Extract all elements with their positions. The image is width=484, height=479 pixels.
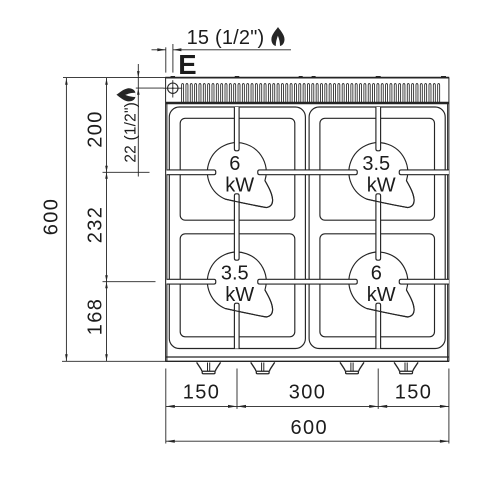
left chain extension at 432 xyxy=(103,281,156,283)
svg-text:kW: kW xyxy=(225,284,254,306)
cooktop body left edge (double line) xyxy=(166,78,167,362)
dim 22 line xyxy=(137,64,140,177)
adjustable foot 3 xyxy=(340,362,364,373)
svg-text:6: 6 xyxy=(371,263,382,285)
burner 1 body (top-left, 6 kW) xyxy=(207,143,272,208)
dim 600 left line xyxy=(65,78,68,362)
dim line 15 xyxy=(152,48,292,51)
splash-rail comb ribs xyxy=(182,84,440,103)
right module upper pan-support frame xyxy=(320,118,435,220)
adjustable foot 1 xyxy=(197,362,221,373)
pan support right finger row 2 xyxy=(399,279,449,284)
right module lower pan-support frame xyxy=(320,234,435,337)
pan support middle finger row 1 xyxy=(258,170,358,175)
pan support top finger column 1 xyxy=(234,107,239,151)
gas connection crosshair xyxy=(163,80,182,97)
svg-text:232: 232 xyxy=(84,206,106,244)
burner 2 teardrop outline restroke xyxy=(367,181,414,208)
svg-text:6: 6 xyxy=(229,153,240,175)
pan support left finger row 1 xyxy=(167,170,216,175)
extension line top left xyxy=(63,77,166,79)
svg-text:22 (1/2"): 22 (1/2") xyxy=(122,102,139,163)
adjustable foot 4 xyxy=(394,362,418,373)
svg-text:300: 300 xyxy=(289,382,327,404)
svg-text:3.5: 3.5 xyxy=(221,263,249,285)
burner 3 body (bottom-left, 3.5 kW) xyxy=(207,252,272,317)
svg-text:150: 150 xyxy=(395,382,433,404)
pan support top finger column 2 xyxy=(376,107,381,151)
pan support bottom finger column 2 xyxy=(376,303,381,348)
svg-text:kW: kW xyxy=(367,284,396,306)
svg-text:600: 600 xyxy=(291,417,329,439)
burner 4 teardrop outline restroke xyxy=(367,290,414,317)
pan support middle finger column 2 xyxy=(376,194,381,260)
cooktop body right edge (double line) xyxy=(448,78,449,362)
svg-text:15 (1/2"): 15 (1/2") xyxy=(187,27,265,49)
mounting tabs on top edge xyxy=(171,76,446,78)
svg-text:kW: kW xyxy=(225,175,254,197)
cooktop body top edge xyxy=(165,77,449,79)
svg-text:3.5: 3.5 xyxy=(362,153,390,175)
svg-text:kW: kW xyxy=(367,175,396,197)
svg-text:168: 168 xyxy=(84,298,106,336)
pan support middle finger row 2 xyxy=(258,279,358,284)
burner 1 teardrop outline restroke xyxy=(225,181,272,208)
left module outer frame xyxy=(169,107,305,349)
svg-text:600: 600 xyxy=(41,198,63,236)
burner power label 3.5 kW xyxy=(362,153,395,196)
adjustable foot 2 xyxy=(251,362,275,373)
dim row 150/300/150 line xyxy=(166,405,449,408)
burner power label 6 kW xyxy=(367,263,396,306)
gas connection marker E circle xyxy=(168,83,178,93)
flame icon left (rotated) xyxy=(116,88,135,101)
burner 3 teardrop outline restroke xyxy=(225,290,272,317)
pan support right finger row 1 xyxy=(399,170,449,175)
right module outer frame xyxy=(309,107,445,349)
cooktop body bottom edge (double line) xyxy=(165,357,449,361)
burner 2 body (top-right, 3.5 kW) xyxy=(349,143,414,208)
burner 4 body (bottom-right, 6 kW) xyxy=(349,252,414,317)
splash-rail bottom line xyxy=(166,102,449,104)
svg-text:E: E xyxy=(178,49,196,80)
pan support middle finger column 1 xyxy=(234,194,239,260)
left module lower pan-support frame xyxy=(180,234,295,337)
bottom extension lines xyxy=(166,369,449,444)
left chain extension at 200 xyxy=(103,171,150,173)
flame icon top xyxy=(271,27,284,46)
svg-text:200: 200 xyxy=(84,110,106,148)
pan support left finger row 2 xyxy=(167,279,216,284)
burner power label 6 kW xyxy=(225,153,254,196)
dim 22 extension xyxy=(136,87,164,89)
extension lines 15 xyxy=(166,44,173,73)
extension line bottom left xyxy=(62,360,166,362)
left chain dim line xyxy=(105,78,108,362)
left module upper pan-support frame xyxy=(180,118,295,220)
dim 600 bottom line xyxy=(166,440,449,443)
pan support bottom finger column 1 xyxy=(234,303,239,348)
svg-text:150: 150 xyxy=(183,382,221,404)
burner power label 3.5 kW xyxy=(221,263,254,306)
